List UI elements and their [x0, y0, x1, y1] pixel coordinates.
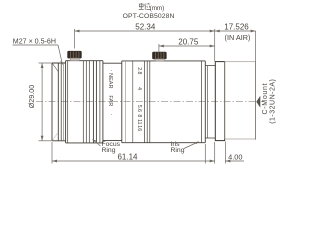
svg-text:Ø29.00: Ø29.00	[27, 85, 36, 109]
front chamfer bottom	[52, 132, 58, 140]
svg-text:8: 8	[136, 114, 142, 117]
svg-text:NEAR: NEAR	[107, 73, 113, 89]
svg-text:C-Mount: C-Mount	[262, 83, 269, 115]
centerline	[36, 101, 263, 103]
dimension D29.00	[39, 63, 52, 141]
C-mount flange ring	[215, 62, 224, 141]
svg-text:4: 4	[136, 87, 142, 90]
svg-text:20.75: 20.75	[178, 37, 199, 46]
svg-text:5.6: 5.6	[136, 105, 142, 112]
svg-text:11: 11	[136, 119, 142, 124]
dimension 20.75	[159, 44, 215, 52]
dimension 17.526 (IN AIR)	[215, 29, 256, 61]
title unit (mm)	[139, 3, 151, 10]
svg-text:M27 × 0.5-6H: M27 × 0.5-6H	[13, 38, 56, 46]
front chamfer top	[52, 63, 58, 71]
svg-text:2.8: 2.8	[136, 67, 142, 74]
svg-text:·: ·	[108, 114, 114, 116]
svg-text:Ring: Ring	[102, 147, 116, 154]
focus ring barrel	[66, 61, 103, 143]
svg-text:61.14: 61.14	[117, 152, 138, 161]
svg-text:(mm): (mm)	[150, 5, 165, 12]
image plane line	[255, 31, 257, 140]
C-mount thread barrel	[225, 62, 256, 139]
svg-text:17.526: 17.526	[224, 22, 249, 31]
dimension 61.14	[52, 142, 215, 164]
svg-text:FAR: FAR	[107, 95, 113, 106]
svg-text:4.00: 4.00	[228, 152, 242, 161]
focus lock screw knob Q1	[68, 51, 82, 60]
iris lock screw knob Q2	[153, 52, 167, 61]
dimension 4.00	[215, 142, 244, 164]
aperture scale 2.8 4 5.6 8 11 16	[136, 67, 142, 131]
rear neck	[205, 66, 215, 138]
scale ring	[103, 61, 122, 143]
front barrel	[52, 63, 66, 141]
svg-text:Ring: Ring	[171, 147, 185, 154]
svg-text:OPT-COB5028N: OPT-COB5028N	[123, 13, 175, 20]
dimension 52.34	[75, 29, 215, 49]
svg-text:·: ·	[108, 70, 114, 72]
svg-text:(1-32UN-2A): (1-32UN-2A)	[270, 79, 277, 124]
NEAR / FAR markings	[107, 70, 114, 116]
svg-text:16: 16	[136, 125, 142, 131]
svg-text:(IN AIR): (IN AIR)	[225, 33, 251, 42]
svg-text:52.34: 52.34	[135, 23, 156, 32]
label C-Mount (1-32UN-2A) with leader arrow	[256, 96, 260, 108]
iris ring barrel	[122, 61, 206, 143]
